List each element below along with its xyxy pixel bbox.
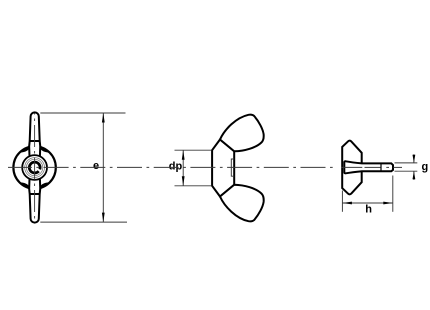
svg-text:e: e: [93, 160, 99, 172]
svg-text:g: g: [422, 161, 429, 173]
svg-text:h: h: [365, 203, 372, 215]
svg-text:dp: dp: [169, 160, 183, 172]
